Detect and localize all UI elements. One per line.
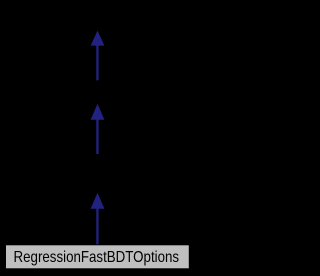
svg-text:RegressionFastBDTOptions: RegressionFastBDTOptions — [14, 249, 180, 266]
